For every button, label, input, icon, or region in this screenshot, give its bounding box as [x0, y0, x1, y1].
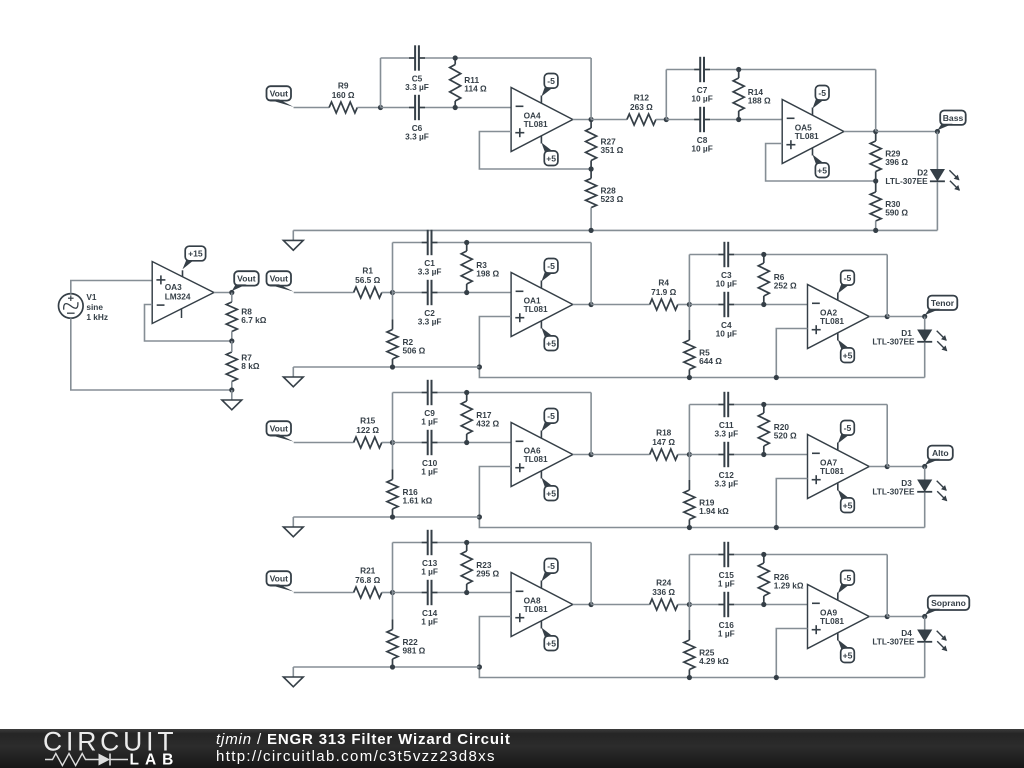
node R23 bottom [464, 590, 469, 595]
op-amp OA8 [511, 573, 573, 637]
net flag Soprano [925, 596, 970, 616]
wire OA1 output [573, 304, 591, 306]
svg-text:TL081: TL081 [524, 119, 548, 129]
net flag Vout (Alto row input) [267, 421, 294, 441]
svg-text:+5: +5 [843, 350, 853, 360]
svg-text:4.29 kΩ: 4.29 kΩ [699, 656, 729, 666]
svg-text:1 kHz: 1 kHz [86, 312, 108, 322]
svg-text:71.9 Ω: 71.9 Ω [651, 287, 676, 297]
svg-text:520 Ω: 520 Ω [774, 430, 797, 440]
svg-text:LM324: LM324 [165, 292, 191, 302]
wire node B up [665, 70, 667, 120]
svg-text:3.3 µF: 3.3 µF [714, 428, 738, 438]
wire LED D4 to rail [924, 643, 926, 678]
svg-text:351 Ω: 351 Ω [601, 145, 624, 155]
wire Vout to R15 [294, 442, 354, 444]
svg-text:OA3: OA3 [165, 282, 182, 292]
svg-text:122 Ω: 122 Ω [356, 425, 379, 435]
node A (Soprano stage 1) [390, 590, 395, 595]
svg-text:252 Ω: 252 Ω [774, 280, 797, 290]
wire node B up [688, 255, 690, 305]
wire node up to top wire [392, 543, 394, 593]
resistor R5 [684, 305, 722, 378]
svg-text:3.3 µF: 3.3 µF [405, 82, 429, 92]
wire OA7 + input to rail [776, 479, 807, 528]
ground (Alto row) [283, 517, 303, 537]
wire OA9 feedback vertical [886, 555, 888, 617]
resistor R28 [586, 169, 624, 230]
svg-text:1.61 kΩ: 1.61 kΩ [403, 495, 433, 505]
node OA1 output [589, 302, 594, 307]
wire node to C2 [393, 292, 422, 294]
power flag -5 on OA5 [813, 86, 830, 116]
wire node B to C12 [689, 454, 718, 456]
resistor R7 [226, 341, 260, 390]
capacitor C7 [691, 57, 712, 104]
svg-text:10 µF: 10 µF [716, 278, 737, 288]
wire OA2 output [869, 316, 887, 318]
wire OA7 feedback vertical [886, 405, 888, 467]
svg-text:TL081: TL081 [524, 304, 548, 314]
wire OA3 feedback [145, 305, 232, 342]
wire top left segment [381, 57, 410, 59]
resistor R29 [870, 132, 908, 182]
capacitor C13 [421, 530, 438, 577]
node R19 at rail [687, 525, 692, 530]
wire C10 to op-amp - input [438, 442, 512, 444]
svg-text:1 µF: 1 µF [421, 416, 438, 426]
ground (Soprano row) [283, 667, 303, 687]
svg-text:LTL-307EE: LTL-307EE [872, 486, 915, 496]
svg-text:Bass: Bass [943, 113, 964, 123]
resistor R27 [586, 120, 624, 170]
ground rail left [293, 366, 479, 368]
LED D2 [885, 167, 960, 191]
wire R15 to node [382, 442, 393, 444]
power flag -5 on OA8 [541, 559, 557, 589]
wire V1 top to OA3 + input [71, 281, 152, 294]
wire OA7 output [869, 466, 887, 468]
node OA7 output [885, 464, 890, 469]
node left rail join [477, 514, 482, 519]
wire Alto node down to LED [924, 467, 926, 481]
wire topB right [734, 554, 887, 556]
wire R12 to node B [656, 119, 666, 121]
capacitor C15 [718, 542, 735, 589]
wire topB right [734, 404, 887, 406]
resistor R16 [387, 443, 433, 518]
wire topB left [689, 404, 718, 406]
net flag Vout at OA3 output [232, 271, 259, 291]
wire Tenor node down to LED [924, 317, 926, 331]
wire top right segment [425, 57, 591, 59]
node R8/R7 junction [229, 338, 234, 343]
resistor R30 [870, 181, 908, 230]
wire Vout to R1 [294, 292, 354, 294]
svg-text:-5: -5 [547, 76, 555, 86]
svg-text:Vout: Vout [270, 274, 289, 284]
svg-text:6.7 kΩ: 6.7 kΩ [241, 315, 266, 325]
wire output to R18 [591, 454, 650, 456]
svg-text:-5: -5 [547, 261, 555, 271]
op-amp OA3 [152, 262, 214, 324]
wire feedback vertical [590, 543, 592, 605]
svg-text:644 Ω: 644 Ω [699, 356, 722, 366]
wire top right segment [438, 242, 591, 244]
resistor R23 [461, 543, 499, 593]
wire OA6 + input to ground [479, 467, 924, 528]
node R25 at rail [687, 675, 692, 680]
node B (Soprano stage 2) [687, 602, 692, 607]
svg-text:336 Ω: 336 Ω [652, 587, 675, 597]
wire output to R24 [591, 604, 650, 606]
node R20 top [761, 402, 766, 407]
node R2 at rail [390, 364, 395, 369]
wire node B to C16 [689, 604, 718, 606]
wire feedback vertical [590, 243, 592, 305]
net flag Alto [925, 446, 953, 466]
svg-text:263 Ω: 263 Ω [630, 102, 653, 112]
node R20 bottom [761, 452, 766, 457]
svg-text:56.5 Ω: 56.5 Ω [355, 275, 380, 285]
wire top left segment [393, 392, 422, 394]
node OA6 output [589, 452, 594, 457]
node R6 top [761, 252, 766, 257]
resistor R22 [387, 593, 426, 668]
resistor R6 [758, 255, 797, 305]
node R16 at rail [390, 514, 395, 519]
svg-text:1.94 kΩ: 1.94 kΩ [699, 506, 729, 516]
wire top right segment [438, 542, 591, 544]
power flag -5 on OA1 [541, 259, 557, 289]
wire V1 bottom to ground rail [71, 318, 232, 390]
power flag -5 on OA7 [838, 421, 855, 451]
wire LED D2 to ground rail [936, 182, 938, 230]
node R29/R30 junction [873, 178, 878, 183]
svg-text:+5: +5 [546, 338, 556, 348]
node OA3 output Vout [229, 290, 234, 295]
power flag +5 on OA7 [838, 483, 855, 513]
LED D1 [872, 328, 947, 352]
op-amp OA1 [511, 273, 573, 337]
node R28 at rail [589, 228, 594, 233]
svg-text:+5: +5 [546, 638, 556, 648]
node R11 bottom [453, 105, 458, 110]
node OA5 output [873, 129, 878, 134]
power flag +5 on OA2 [838, 333, 855, 363]
wire C16 to op-amp - input [734, 604, 807, 606]
resistor R20 [758, 405, 797, 455]
node left rail join [477, 664, 482, 669]
svg-text:LTL-307EE: LTL-307EE [872, 636, 915, 646]
svg-text:+5: +5 [817, 165, 827, 175]
wire OA4 output [573, 119, 591, 121]
svg-text:10 µF: 10 µF [691, 93, 712, 103]
resistor R14 [733, 70, 771, 120]
CircuitLab logo [43, 727, 179, 768]
wire top left segment [393, 242, 422, 244]
resistor R25 [684, 605, 729, 678]
power flag +5 on OA9 [838, 633, 855, 663]
wire OA8 + input to ground [479, 617, 924, 678]
resistor R8 [226, 293, 266, 342]
capacitor C2 [418, 280, 442, 327]
wire R4 to node B [678, 304, 690, 306]
power flag -5 on OA2 [838, 271, 855, 301]
power flag +5 on OA8 [541, 621, 557, 651]
wire node B up [688, 405, 690, 455]
svg-text:1 µF: 1 µF [421, 466, 438, 476]
ground rail left [293, 666, 479, 668]
svg-text:114 Ω: 114 Ω [464, 84, 487, 94]
capacitor C11 [714, 392, 738, 439]
wire C4 to op-amp - input [734, 304, 807, 306]
wire R24 to node B [678, 604, 690, 606]
svg-text:3.3 µF: 3.3 µF [418, 316, 442, 326]
wire node to C6 [381, 107, 410, 109]
wire Vout to R9 [294, 107, 330, 109]
capacitor C9 [421, 380, 438, 427]
resistor R18 [650, 428, 678, 460]
svg-text:8 kΩ: 8 kΩ [241, 361, 260, 371]
resistor R24 [650, 578, 678, 610]
wire OA3 output to node [214, 292, 232, 294]
svg-text:TL081: TL081 [524, 454, 548, 464]
svg-text:TL081: TL081 [820, 316, 844, 326]
wire OA8 output [573, 604, 591, 606]
svg-text:+5: +5 [843, 500, 853, 510]
capacitor C6 [405, 95, 429, 142]
svg-text:-5: -5 [818, 88, 826, 98]
svg-text:-5: -5 [547, 411, 555, 421]
node OA7 + at rail [774, 525, 779, 530]
svg-text:1.29 kΩ: 1.29 kΩ [774, 580, 804, 590]
node B (R12/C8/C7) [664, 117, 669, 122]
capacitor C8 [691, 107, 712, 154]
ground rail row 1 [293, 229, 937, 231]
op-amp OA7 [808, 435, 870, 499]
node OA4 output/feedback [589, 117, 594, 122]
net flag Tenor [925, 296, 958, 316]
wire node to C14 [393, 592, 422, 594]
svg-text:432 Ω: 432 Ω [476, 418, 499, 428]
resistor R9 [329, 81, 357, 113]
node R17 bottom [464, 440, 469, 445]
node R3 top [464, 240, 469, 245]
resistor R26 [758, 555, 804, 605]
svg-text:Tenor: Tenor [931, 298, 955, 308]
power flag +5 on OA1 [541, 321, 557, 351]
op-amp OA4 [511, 88, 573, 152]
power flag +5 on OA4 [541, 136, 557, 166]
svg-text:sine: sine [86, 302, 103, 312]
svg-text:LTL-307EE: LTL-307EE [885, 176, 928, 186]
op-amp OA5 [782, 100, 844, 164]
capacitor C10 [421, 430, 438, 477]
wire topB left [666, 69, 694, 71]
svg-text:TL081: TL081 [795, 131, 819, 141]
node A (Alto stage 1) [390, 440, 395, 445]
node OA9 + at rail [774, 675, 779, 680]
capacitor C4 [716, 292, 737, 339]
svg-text:+15: +15 [188, 249, 203, 259]
node R17 top [464, 390, 469, 395]
capacitor C14 [421, 580, 438, 627]
wire top left segment [393, 542, 422, 544]
node ground rail junction [229, 387, 234, 392]
power flag -5 on OA4 [541, 74, 557, 104]
node R6 bottom [761, 302, 766, 307]
svg-text:198 Ω: 198 Ω [476, 268, 499, 278]
node OA2 output [885, 314, 890, 319]
node Alto output [922, 464, 927, 469]
power flag +5 on OA5 [813, 148, 830, 178]
svg-text:V1: V1 [86, 292, 97, 302]
net flag Bass [937, 111, 965, 131]
wire output to Tenor node [887, 316, 925, 318]
wire feedback vertical [590, 58, 592, 120]
svg-text:506 Ω: 506 Ω [403, 345, 426, 355]
wire node up to top wire [392, 393, 394, 443]
LED D3 [872, 478, 947, 502]
svg-text:Vout: Vout [270, 89, 289, 99]
resistor R4 [650, 278, 678, 310]
wire node B to C8 [666, 119, 694, 121]
svg-text:+5: +5 [843, 650, 853, 660]
svg-text:590 Ω: 590 Ω [885, 207, 908, 217]
node R3 bottom [464, 290, 469, 295]
svg-text:-5: -5 [547, 561, 555, 571]
node A (R9/C6/C5 junction) [378, 105, 383, 110]
wire OA2 + input to rail [776, 329, 807, 378]
capacitor C16 [718, 592, 735, 639]
wire C12 to op-amp - input [734, 454, 807, 456]
wire node up to top wire [380, 58, 382, 108]
node OA2 + at rail [774, 375, 779, 380]
node Tenor output [922, 314, 927, 319]
wire output to R4 [591, 304, 650, 306]
resistor R19 [684, 455, 729, 528]
wire topB left [689, 554, 718, 556]
svg-text:Vout: Vout [237, 274, 256, 284]
op-amp OA2 [808, 285, 870, 349]
svg-text:188 Ω: 188 Ω [748, 95, 771, 105]
svg-text:Vout: Vout [270, 574, 289, 584]
wire R18 to node B [678, 454, 690, 456]
resistor R12 [627, 93, 656, 125]
wire node to C10 [393, 442, 422, 444]
capacitor C1 [418, 230, 442, 276]
wire C8 to OA5 - input [710, 119, 782, 121]
resistor R11 [450, 58, 487, 108]
svg-text:TL081: TL081 [524, 604, 548, 614]
svg-text:+5: +5 [546, 488, 556, 498]
wire output to Alto node [887, 466, 925, 468]
svg-text:-5: -5 [844, 573, 852, 583]
svg-text:10 µF: 10 µF [716, 328, 737, 338]
svg-text:Alto: Alto [932, 448, 949, 458]
power flag -5 on OA9 [838, 571, 855, 601]
svg-text:1 µF: 1 µF [421, 616, 438, 626]
capacitor C12 [714, 442, 738, 489]
OA3 V- pin stub [181, 308, 183, 318]
node OA8 output [589, 602, 594, 607]
wire feedback vertical [590, 393, 592, 455]
capacitor C5 [405, 45, 429, 92]
wire OA5 feedback vertical [875, 70, 877, 132]
ground (Tenor row) [283, 367, 303, 387]
wire top right segment [438, 392, 591, 394]
LED D4 [872, 628, 947, 652]
wire OA4 output to R12 [591, 119, 627, 121]
wire C2 to op-amp - input [438, 292, 512, 294]
node B (Alto stage 2) [687, 452, 692, 457]
wire R21 to node [382, 592, 393, 594]
wire Vout to R21 [294, 592, 354, 594]
ground (row 1) [283, 230, 303, 250]
svg-text:76.8 Ω: 76.8 Ω [355, 575, 380, 585]
svg-text:396 Ω: 396 Ω [885, 157, 908, 167]
svg-text:+5: +5 [546, 153, 556, 163]
node R30 at rail [873, 228, 878, 233]
node R27/R28 junction [589, 166, 594, 171]
svg-text:Soprano: Soprano [931, 598, 966, 608]
node R14 top [736, 67, 741, 72]
net flag Vout (Bass row input) [267, 86, 294, 107]
svg-text:TL081: TL081 [820, 466, 844, 476]
svg-text:3.3 µF: 3.3 µF [405, 131, 429, 141]
net flag Vout (Tenor row input) [267, 271, 294, 291]
op-amp OA6 [511, 423, 573, 487]
power flag +15 on OA3 [183, 246, 206, 277]
node R26 bottom [761, 602, 766, 607]
wire topB left [689, 254, 718, 256]
net flag Vout (Soprano row input) [267, 571, 294, 591]
node Soprano output [922, 614, 927, 619]
resistor R21 [354, 566, 382, 598]
wire OA5 output to Bass node [876, 131, 938, 133]
node R22 at rail [390, 664, 395, 669]
svg-text:Vout: Vout [270, 424, 289, 434]
wire R1 to node [382, 292, 393, 294]
resistor R17 [461, 393, 499, 443]
wire output to Soprano node [887, 616, 925, 618]
wire C6 to OA4 - input [425, 107, 511, 109]
wire OA6 output [573, 454, 591, 456]
svg-text:1 µF: 1 µF [421, 566, 438, 576]
svg-text:1 µF: 1 µF [718, 578, 735, 588]
node left rail join [477, 364, 482, 369]
resistor R1 [354, 266, 382, 298]
wire node up to top wire [392, 243, 394, 293]
node Bass output [935, 129, 940, 134]
node OA9 output [885, 614, 890, 619]
wire LED D1 to rail [924, 343, 926, 378]
capacitor C3 [716, 242, 737, 288]
node R5 at rail [687, 375, 692, 380]
svg-text:TL081: TL081 [820, 616, 844, 626]
node R11 top [453, 55, 458, 60]
svg-text:981 Ω: 981 Ω [403, 645, 426, 655]
wire OA2 feedback vertical [886, 255, 888, 317]
svg-text:10 µF: 10 µF [691, 143, 712, 153]
svg-text:3.3 µF: 3.3 µF [714, 478, 738, 488]
resistor R2 [387, 293, 426, 368]
voltage source V1 [59, 292, 109, 322]
ground rail left [293, 516, 479, 518]
wire topB right [734, 254, 887, 256]
wire OA1 + input to ground [479, 317, 924, 378]
